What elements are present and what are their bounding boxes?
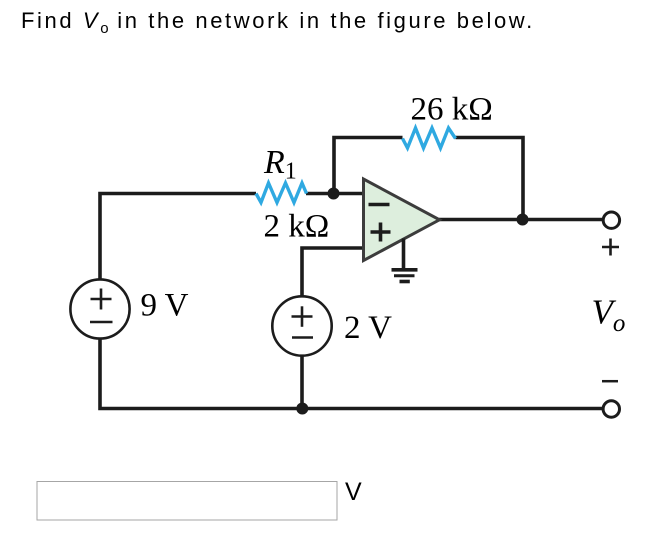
label 26 kOhm [411, 92, 493, 128]
output terminal top (open circle) [603, 212, 619, 228]
wire: feedback right segment from 26k resistor down to output node [456, 138, 524, 220]
junction node at output [517, 214, 529, 226]
output minus sign [602, 380, 618, 383]
wire: non-inverting input from 2V source [302, 248, 364, 297]
op-amp U1 triangle [364, 179, 440, 261]
ground symbol [392, 270, 418, 282]
wire: inverting input (R1 to op-amp) [306, 192, 364, 196]
voltage source 9V circle [70, 279, 129, 338]
wire: 9V bottom to bottom rail to bottom terminal [100, 338, 603, 409]
label 2 V [344, 310, 392, 346]
2V minus sign [292, 336, 313, 339]
label Vo output [592, 293, 626, 338]
junction node at inverting input [328, 188, 340, 200]
label 2 kOhm [264, 209, 330, 245]
svg-text:26 kΩ: 26 kΩ [411, 92, 493, 128]
wire: feedback left segment up and over to 26k resistor [334, 138, 403, 194]
svg-text:V: V [345, 478, 362, 506]
svg-text:2 kΩ: 2 kΩ [264, 209, 330, 245]
title text [21, 10, 535, 36]
svg-text:Vo: Vo [592, 293, 626, 338]
svg-text:R1: R1 [263, 144, 297, 185]
wire: 2V source bottom to bottom rail [300, 356, 304, 410]
wire: left loop from R1 to 9V top [100, 194, 256, 281]
output terminal bottom (open circle) [603, 401, 619, 417]
answer input box [37, 482, 337, 521]
svg-text:2 V: 2 V [344, 310, 392, 346]
voltage source 2V circle [272, 296, 331, 355]
9V plus sign [91, 289, 112, 310]
op-amp inverting input minus sign [369, 203, 390, 207]
label 9 V [141, 288, 189, 324]
op-amp non-inverting input plus sign [371, 223, 391, 242]
2V plus sign [292, 306, 313, 327]
junction node at bottom rail [296, 403, 308, 415]
wire: op-amp output to top terminal [439, 218, 603, 222]
answer unit label V [345, 478, 362, 506]
resistor 26 kOhm (feedback) [403, 128, 456, 148]
label R1 [263, 144, 297, 185]
wire: ground stub from op-amp [402, 239, 406, 270]
resistor R1 2 kOhm [256, 183, 307, 203]
svg-text:9 V: 9 V [141, 288, 189, 324]
9V minus sign [90, 321, 113, 324]
output plus sign [602, 239, 619, 256]
